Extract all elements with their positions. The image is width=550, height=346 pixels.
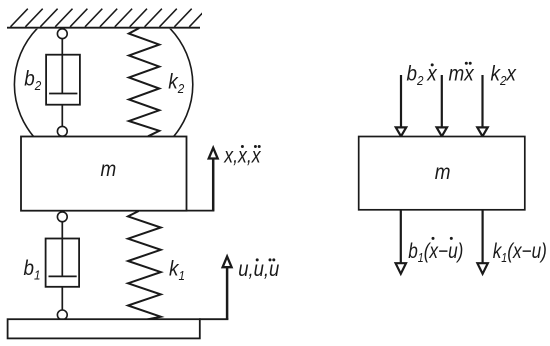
- damper b2 lower rod: [61, 105, 63, 127]
- damper b1 cylinder: [46, 239, 80, 287]
- label m (free body): [435, 161, 451, 184]
- ceiling line: [7, 27, 200, 29]
- damper b2 cylinder: [46, 55, 80, 105]
- label k1: [169, 258, 185, 284]
- pin joint top of b2: [57, 29, 67, 39]
- pin joint below mass: [57, 212, 67, 222]
- spring k1: [128, 211, 161, 320]
- label b2xdot: [407, 63, 438, 88]
- force arrow k1 (bottom right): [477, 210, 487, 274]
- arrow x: [209, 148, 218, 211]
- label u,udot,uddot: [238, 258, 279, 281]
- label x,xdot,xddot: [223, 144, 261, 168]
- force arrow k2x (top right): [477, 75, 487, 136]
- svg-text:mx: mx: [449, 63, 475, 86]
- wire base top extension: [199, 318, 228, 320]
- svg-text:m: m: [435, 161, 451, 184]
- force arrow b1 (bottom left): [396, 210, 406, 274]
- force arrow b2xdot (top left): [396, 75, 406, 136]
- svg-text:u,u,u: u,u,u: [238, 258, 279, 281]
- enclosure ellipse around b2 and k2: [14, 1, 192, 169]
- label m (mass): [101, 158, 117, 181]
- free body mass box: [359, 137, 525, 210]
- label mxddot: [449, 62, 475, 86]
- svg-text:m: m: [101, 158, 117, 181]
- svg-text:b1(x−u): b1(x−u): [408, 240, 463, 265]
- spring k2: [129, 28, 160, 136]
- svg-text:k1(x−u): k1(x−u): [493, 240, 547, 265]
- damper b2 piston rod: [61, 39, 63, 94]
- ceiling hatching: [11, 9, 207, 27]
- arrow u: [223, 257, 232, 320]
- damper b2 piston plate: [49, 93, 77, 95]
- label k2x: [491, 63, 517, 88]
- pin joint bottom of b2: [57, 126, 67, 136]
- damper b1 piston plate: [49, 275, 77, 277]
- force arrow mxddot (top middle): [437, 75, 447, 136]
- label k1(x-u): [493, 240, 547, 265]
- wire mass bottom extension: [187, 210, 215, 212]
- mass m block: [21, 137, 187, 211]
- base block: [8, 319, 200, 338]
- label b1(xdot-udot): [408, 237, 463, 266]
- label k2: [168, 71, 184, 97]
- label b2: [24, 67, 41, 93]
- label b1: [24, 257, 41, 283]
- damper b1 piston rod: [61, 222, 63, 277]
- pin joint above base: [57, 310, 67, 320]
- damper b1 lower rod: [61, 287, 63, 310]
